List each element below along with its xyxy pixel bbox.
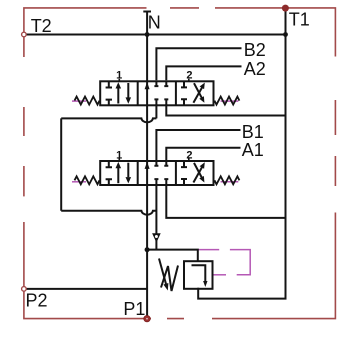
svg-text:P1: P1: [123, 299, 145, 319]
svg-text:1: 1: [116, 149, 122, 161]
svg-text:B2: B2: [244, 40, 266, 60]
svg-text:1: 1: [116, 70, 122, 82]
svg-text:B1: B1: [242, 122, 264, 142]
svg-text:2: 2: [186, 149, 192, 161]
svg-text:N: N: [148, 13, 161, 33]
svg-text:T2: T2: [31, 16, 52, 36]
svg-text:A1: A1: [242, 140, 264, 160]
svg-text:T1: T1: [289, 9, 310, 29]
svg-text:A2: A2: [244, 59, 266, 79]
svg-text:2: 2: [186, 70, 192, 82]
svg-text:P2: P2: [26, 290, 48, 310]
